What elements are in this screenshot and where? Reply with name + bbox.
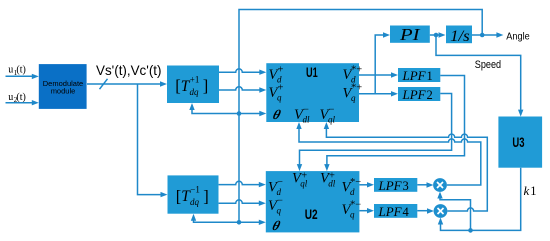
wire demod output to Tdq+1 with bus slash <box>87 79 167 89</box>
node theta lower junction <box>237 220 242 225</box>
wire LPF2 out to U2 Vql+ <box>297 94 452 172</box>
svg-text:]: ] <box>203 76 209 95</box>
wire input u2 <box>6 100 39 105</box>
transform block Tdq-1 <box>168 175 219 213</box>
node theta upper junction <box>237 111 242 116</box>
block PI <box>390 25 430 44</box>
svg-text:q: q <box>277 205 282 215</box>
wire U3 output down and left to M2 bottom <box>438 168 521 231</box>
pin label U1 Vdl- <box>294 104 310 124</box>
svg-text:3: 3 <box>403 179 409 193</box>
svg-text:LPF: LPF <box>402 87 427 102</box>
svg-text:u: u <box>8 92 13 103</box>
svg-text:+1: +1 <box>190 74 200 84</box>
svg-text:4: 4 <box>403 205 410 219</box>
label u1(t) <box>8 65 26 77</box>
svg-text:LPF: LPF <box>378 178 403 193</box>
pin label U1 Vd+ <box>269 64 284 84</box>
svg-text:dq: dq <box>190 87 200 97</box>
transform block Tdq+1 <box>167 66 219 104</box>
block LPF3 <box>374 178 417 193</box>
wire Tdq+1 out Vd to U1 (hop over angle line) <box>219 69 266 75</box>
wire U1 Vq*+ to LPF2 <box>359 91 398 96</box>
block U3 <box>498 117 542 168</box>
svg-text:module: module <box>51 87 76 96</box>
wire input u1 <box>6 74 39 79</box>
wire branch up to M1 bottom <box>437 192 470 231</box>
wire M2 output to U1 Vql- (hops over branch and LPF verticals) <box>324 122 488 211</box>
pin label U1 Vq+ <box>269 82 284 102</box>
svg-text:u: u <box>8 65 13 76</box>
block U1 <box>266 63 359 122</box>
wire PI to 1/s <box>430 32 446 37</box>
pin label U2 Vql+ <box>292 170 308 188</box>
svg-text:*−: *− <box>350 199 361 210</box>
svg-text:U3: U3 <box>512 135 524 150</box>
wire LPF4 to multiplier M2 <box>417 208 434 213</box>
wire U1 Vd*+ to LPF1 <box>359 72 398 77</box>
pin label U2 Vd*- <box>342 177 362 197</box>
svg-text:1: 1 <box>427 69 433 83</box>
node speed takeoff junction <box>434 33 439 38</box>
wire Tdq+1 out Vq to U1 (hop over angle line) <box>219 87 266 93</box>
wire Vq*+ branch up to PI <box>375 32 390 94</box>
block LPF4 <box>374 204 417 219</box>
svg-text:2: 2 <box>427 88 433 102</box>
svg-text:+: + <box>301 170 307 181</box>
svg-text:Angle: Angle <box>506 31 530 43</box>
wire 1/s output to Angle <box>472 32 503 37</box>
pin label U1 Vd*+ <box>343 64 363 84</box>
wire branch down to Tdq-1 <box>138 84 168 197</box>
wire angle feedback (1/s output up, across top, down left side) <box>239 10 482 223</box>
svg-text:+: + <box>278 64 284 75</box>
svg-text:U1: U1 <box>306 65 318 80</box>
pin label U2 Vq- <box>268 195 283 215</box>
wire LPF1 out to U2 Vdl+ <box>324 76 464 172</box>
demodulate module block <box>39 64 87 109</box>
multiplier M1 <box>433 178 447 192</box>
svg-text:−: − <box>277 195 283 206</box>
wire Tdq-1 out Vd to U2 (hop) <box>219 181 266 187</box>
pin label U1 Vq*+ <box>343 83 363 103</box>
svg-text:LPF: LPF <box>378 204 403 219</box>
svg-text:*−: *− <box>350 177 361 188</box>
wire M1 output to U1 Vdl- (hops over LPF verticals) <box>296 122 481 185</box>
svg-text:k: k <box>524 183 530 198</box>
node U3 output branch junction <box>468 228 473 233</box>
svg-text:U2: U2 <box>305 207 318 222</box>
wire LPF3 to multiplier M1 <box>417 182 433 187</box>
svg-text:+: + <box>329 170 335 181</box>
pin label U2 Vd- <box>268 177 283 197</box>
label k1 <box>524 183 537 198</box>
svg-text:−: − <box>303 104 309 115</box>
svg-text:−: − <box>329 104 335 115</box>
svg-text:(t): (t) <box>16 92 25 103</box>
wire U2 Vq*- to LPF4 <box>359 208 374 213</box>
svg-text:*+: *+ <box>351 64 362 75</box>
wire Tdq-1 out Vq to U2 (hop) <box>219 200 266 206</box>
wire theta feed to Tdq-1 bottom <box>191 214 239 223</box>
svg-text:q: q <box>351 93 356 103</box>
svg-text:Speed: Speed <box>475 59 501 71</box>
node angle feedback junction <box>480 33 485 38</box>
svg-text:dl: dl <box>303 115 311 125</box>
svg-text:Vs'(t),Vc'(t): Vs'(t),Vc'(t) <box>96 62 162 78</box>
svg-text:q: q <box>277 93 282 103</box>
wire speed line down to U3 <box>436 35 523 117</box>
svg-text:(t): (t) <box>16 65 25 76</box>
svg-text:d: d <box>350 187 355 197</box>
block LPF2 <box>398 87 440 102</box>
block 1/s <box>446 26 472 45</box>
pin label U2 Vdl+ <box>320 170 336 188</box>
wire U2 Vd*- to LPF3 <box>359 182 374 187</box>
svg-text:q: q <box>350 209 355 219</box>
wire theta into U1 <box>239 111 266 116</box>
svg-text:*+: *+ <box>351 83 362 94</box>
svg-text:]: ] <box>203 186 209 205</box>
pin label U2 Vq*- <box>342 199 362 219</box>
svg-text:+: + <box>278 82 284 93</box>
block LPF1 <box>398 68 440 83</box>
svg-text:LPF: LPF <box>402 68 427 83</box>
svg-text:1: 1 <box>530 184 536 198</box>
svg-text:dq: dq <box>190 197 200 207</box>
wire theta feed to Tdq+1 bottom <box>189 103 239 114</box>
block U2 <box>266 171 360 232</box>
svg-text:1/s: 1/s <box>450 28 470 45</box>
svg-text:−: − <box>277 177 283 188</box>
multiplier M2 <box>434 204 448 218</box>
label u2(t) <box>8 92 26 104</box>
pin label U1 Vql- <box>320 104 336 124</box>
svg-text:−1: −1 <box>190 185 200 195</box>
svg-text:ql: ql <box>328 115 336 125</box>
wire theta into U2 <box>239 220 266 225</box>
svg-text:PI: PI <box>399 25 422 44</box>
